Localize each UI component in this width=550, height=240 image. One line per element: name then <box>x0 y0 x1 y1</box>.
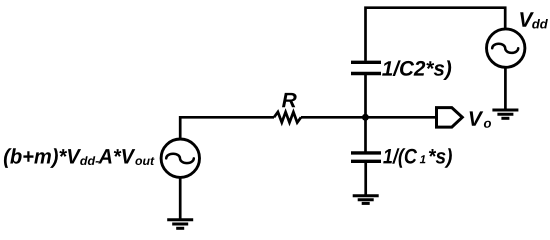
wire: C1 bottom plate to ground <box>364 161 367 196</box>
label source V2 Vdd <box>520 12 534 26</box>
node A junction dot <box>362 114 369 121</box>
wire: node down to C1 top plate <box>364 117 367 152</box>
label resistor R value <box>282 93 297 107</box>
wire: top horizontal from C2 branch to Vdd branch <box>366 8 506 61</box>
output port Vo pentagon <box>437 108 463 128</box>
wire: left source bottom to ground <box>179 178 182 221</box>
voltage source V2 Vdd right <box>487 29 525 67</box>
ground under C1 <box>353 196 379 204</box>
ground under Vdd source <box>492 110 518 118</box>
wire: main horizontal node wire with left source riser <box>180 117 274 138</box>
wire: C2 bottom plate to node <box>364 75 367 119</box>
capacitor C2 value 1/C2*s) <box>351 62 381 73</box>
label capacitor C1 value 1/(C1*s) <box>383 148 417 168</box>
wire: resistor right to output port <box>301 116 438 119</box>
label capacitor C2 value 1/C2*s) <box>382 60 451 80</box>
capacitor C1 value 1/(C1*s) <box>351 153 381 161</box>
wire: Vdd source bottom to ground <box>504 67 507 110</box>
resistor R <box>274 112 301 123</box>
label port Vo <box>470 111 484 125</box>
ground under left source <box>167 220 193 229</box>
voltage source V1 left (b+m)*Vdd-A*Vout <box>161 139 199 177</box>
label source V1 value (b+m)*Vdd-A*Vout <box>4 148 81 168</box>
